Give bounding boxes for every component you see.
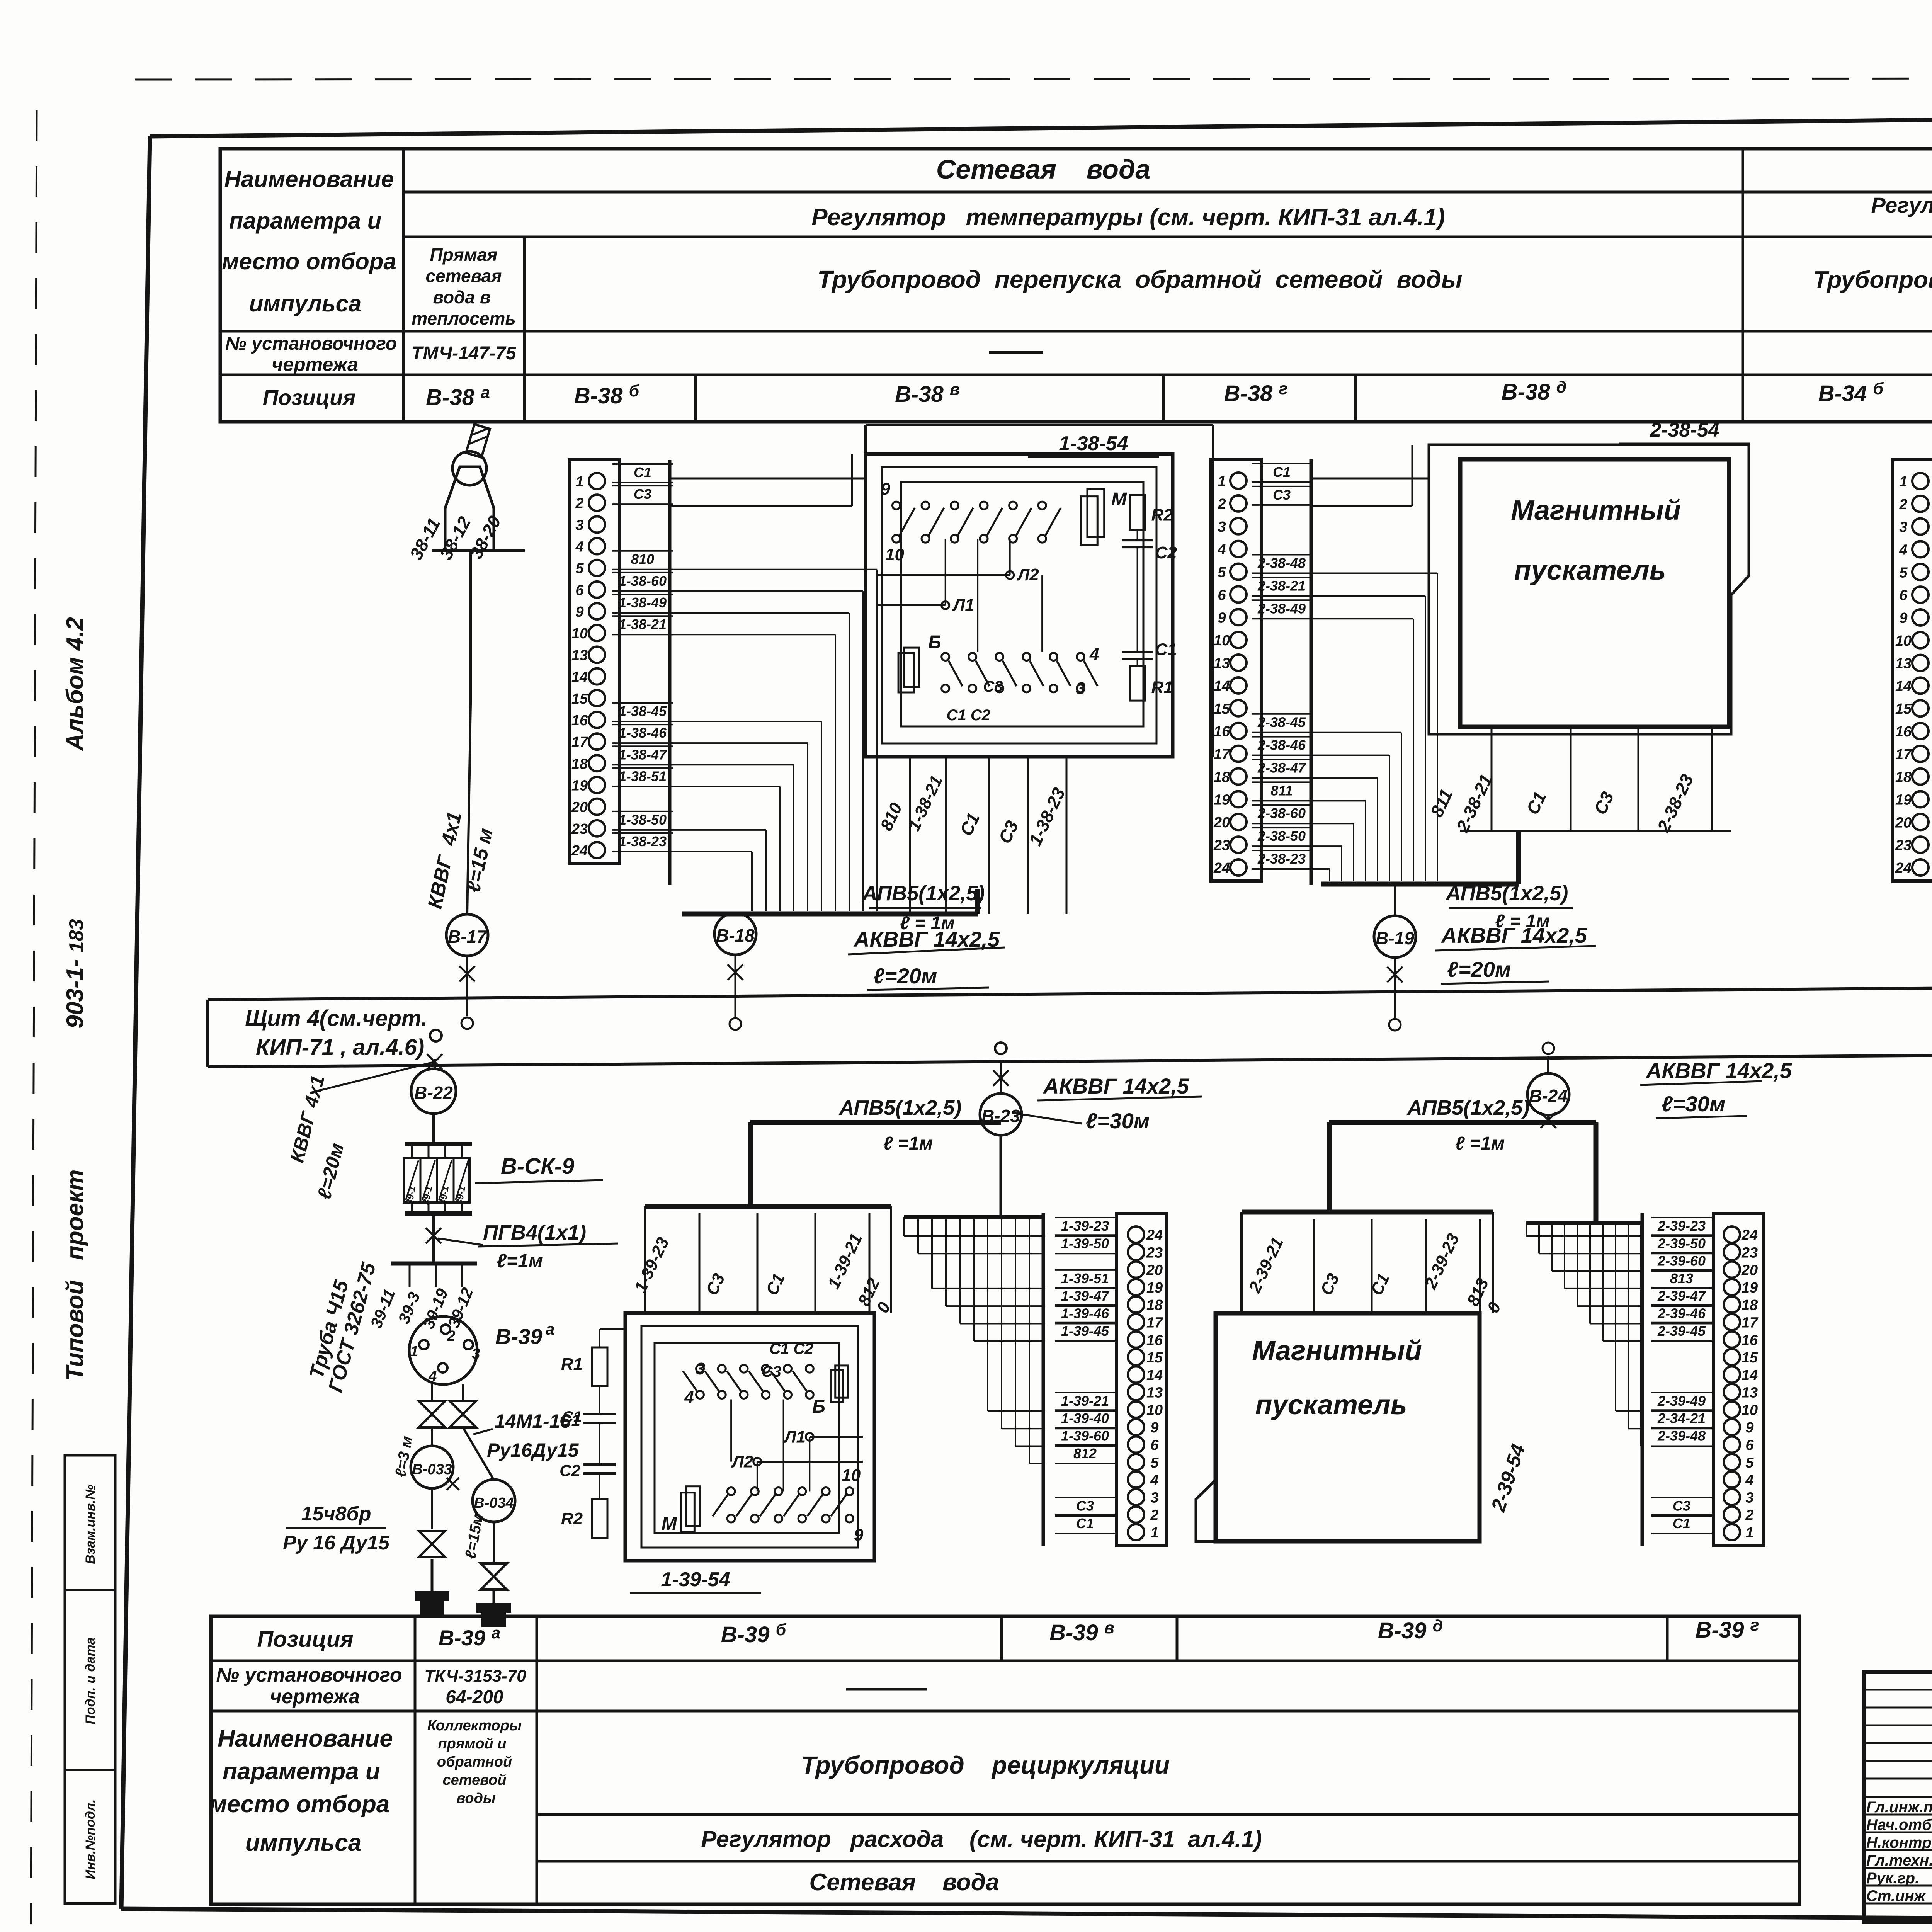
svg-text:Ру16Ду15: Ру16Ду15 — [487, 1439, 579, 1461]
svg-text:2-39-45: 2-39-45 — [1657, 1323, 1706, 1339]
svg-text:Коллекторы: Коллекторы — [427, 1718, 522, 1734]
sensor leads 39-x — [391, 1262, 477, 1266]
svg-text:В-39: В-39 — [495, 1324, 542, 1349]
svg-text:6: 6 — [1150, 1437, 1159, 1454]
svg-text:3: 3 — [696, 1359, 705, 1378]
sheet edge dashed left — [31, 110, 37, 1924]
svg-text:1-39-47: 1-39-47 — [1061, 1288, 1110, 1304]
svg-text:2-38-47: 2-38-47 — [1257, 760, 1306, 776]
svg-text:№ установочного: № установочного — [216, 1664, 402, 1686]
svg-text:Позиция: Позиция — [263, 385, 356, 410]
svg-text:16: 16 — [1742, 1332, 1758, 1349]
component column left of A3 — [592, 1347, 607, 1386]
svg-text:АКВВГ 14х2,5: АКВВГ 14х2,5 — [1043, 1074, 1189, 1098]
svg-text:Нач.отб.: Нач.отб. — [1866, 1816, 1932, 1833]
wire B-17 to bus — [466, 955, 468, 1016]
svg-text:1: 1 — [1899, 474, 1907, 490]
magnetic starter 2 notch — [1196, 1480, 1216, 1541]
svg-text:6: 6 — [575, 582, 584, 599]
wire B-19 to bus — [1394, 957, 1396, 1018]
svg-text:Ру 16 Ду15: Ру 16 Ду15 — [283, 1532, 390, 1554]
svg-text:4: 4 — [1899, 542, 1907, 558]
svg-text:Сетевая вода: Сетевая вода — [936, 154, 1151, 184]
svg-text:13: 13 — [571, 647, 588, 663]
svg-text:9: 9 — [575, 604, 583, 620]
terminal block X4 — [1117, 1213, 1167, 1546]
svg-text:1-39-60: 1-39-60 — [1061, 1428, 1109, 1444]
svg-text:2-38-48: 2-38-48 — [1257, 555, 1306, 571]
svg-text:14: 14 — [1895, 678, 1912, 694]
svg-text:В-38 а: В-38 а — [426, 383, 490, 410]
svg-text:Ст.инж: Ст.инж — [1866, 1888, 1927, 1905]
relay box A1 bottom leads — [988, 757, 990, 914]
svg-text:прямой и: прямой и — [438, 1736, 506, 1752]
svg-text:1-39-54: 1-39-54 — [661, 1568, 730, 1591]
svg-text:пускатель: пускатель — [1255, 1389, 1407, 1420]
svg-text:16: 16 — [1895, 724, 1912, 740]
bundle APV5 unit F — [750, 1120, 1001, 1125]
svg-text:2-38-21: 2-38-21 — [1257, 578, 1306, 594]
svg-text:1-38-49: 1-38-49 — [619, 595, 667, 611]
valves pair below B-39a — [431, 1384, 433, 1400]
svg-text:импульса: импульса — [249, 291, 362, 316]
node B-033 — [431, 1427, 433, 1446]
svg-text:Позиция: Позиция — [257, 1627, 353, 1652]
svg-text:1: 1 — [1745, 1525, 1753, 1541]
svg-text:С1: С1 — [1155, 640, 1177, 659]
node B-17 — [446, 914, 488, 956]
svg-text:ПГВ4(1х1): ПГВ4(1х1) — [483, 1221, 586, 1244]
svg-text:R1: R1 — [1151, 678, 1173, 697]
svg-text:813: 813 — [1670, 1270, 1693, 1286]
svg-text:2: 2 — [575, 495, 583, 512]
svg-text:810: 810 — [631, 551, 654, 567]
svg-text:R2: R2 — [1151, 505, 1173, 524]
unit G top lead cells — [1313, 1219, 1315, 1312]
svg-text:23: 23 — [571, 821, 588, 837]
ground symbol 1 — [431, 1559, 434, 1591]
svg-text:15: 15 — [571, 691, 588, 707]
svg-text:Гл.техн.: Гл.техн. — [1866, 1852, 1932, 1869]
svg-text:Рук.гр.: Рук.гр. — [1866, 1870, 1919, 1887]
terminal bus line X1 — [668, 460, 672, 885]
stamp frame — [1864, 1672, 1932, 1922]
relay box A3 — [625, 1313, 874, 1561]
terminal bus line X2 — [1310, 459, 1313, 885]
svg-text:1-39-50: 1-39-50 — [1061, 1235, 1109, 1251]
svg-text:вода в: вода в — [433, 287, 490, 307]
svg-text:чертежа: чертежа — [270, 1685, 360, 1708]
svg-text:1: 1 — [1150, 1525, 1158, 1541]
svg-text:10: 10 — [1742, 1402, 1758, 1418]
svg-text:64-200: 64-200 — [446, 1687, 503, 1708]
svg-text:5: 5 — [575, 561, 584, 577]
svg-text:С1: С1 — [560, 1411, 580, 1429]
svg-text:10: 10 — [842, 1466, 861, 1485]
panel bus Щит 4 box — [208, 984, 1932, 1000]
svg-text:23: 23 — [1146, 1245, 1163, 1261]
svg-text:6: 6 — [1745, 1437, 1754, 1454]
border frame — [150, 113, 1932, 136]
svg-text:13: 13 — [1146, 1385, 1163, 1401]
svg-text:Регулятор расхода (см. че: Регулятор расхода (см. черт. КИП-31 ал.4… — [701, 1826, 1262, 1852]
svg-text:С1 С2: С1 С2 — [947, 707, 990, 724]
bundle unit C — [1321, 882, 1519, 887]
svg-text:В-033: В-033 — [412, 1461, 452, 1478]
wire B-24 to bus — [1547, 1056, 1549, 1075]
svg-text:Типовой проект: Типовой проект — [62, 1169, 88, 1381]
svg-text:2-38-60: 2-38-60 — [1257, 805, 1306, 821]
terminal X2 left leads — [1311, 478, 1429, 480]
svg-text:9: 9 — [1150, 1420, 1158, 1436]
svg-text:В-39 а: В-39 а — [439, 1624, 500, 1650]
top table grid — [220, 149, 1932, 422]
svg-text:1: 1 — [575, 474, 583, 490]
svg-text:5: 5 — [1745, 1455, 1754, 1471]
wire B-18 to bus — [735, 954, 736, 1017]
svg-text:18: 18 — [571, 756, 588, 772]
sensor thermometer B-17 top — [445, 467, 494, 551]
svg-text:20: 20 — [571, 799, 588, 816]
svg-text:3: 3 — [1150, 1490, 1158, 1506]
wire B-19 drop — [1394, 884, 1396, 917]
svg-text:место отбора: место отбора — [222, 248, 396, 274]
svg-text:13: 13 — [1214, 655, 1230, 672]
svg-text:АПВ5(1х2,5): АПВ5(1х2,5) — [1445, 882, 1568, 905]
svg-text:18: 18 — [1895, 769, 1912, 786]
svg-text:23: 23 — [1895, 837, 1912, 854]
relay box A1 top link — [866, 424, 1213, 426]
svg-text:С1: С1 — [1273, 464, 1291, 480]
svg-text:16: 16 — [571, 713, 588, 729]
unit F top bus — [645, 1204, 891, 1209]
svg-text:24: 24 — [571, 843, 588, 859]
svg-text:24: 24 — [1213, 860, 1230, 876]
svg-text:13: 13 — [1742, 1385, 1758, 1401]
svg-text:17: 17 — [1214, 747, 1231, 763]
svg-text:3: 3 — [1745, 1490, 1753, 1506]
svg-text:14: 14 — [571, 669, 588, 685]
svg-text:R2: R2 — [561, 1509, 583, 1528]
svg-text:812: 812 — [1073, 1446, 1097, 1461]
svg-text:С3: С3 — [1673, 1498, 1690, 1514]
svg-text:17: 17 — [571, 734, 588, 750]
terminal bus line X5 — [1641, 1213, 1644, 1546]
svg-text:Трубопровод перепуска обратн: Трубопровод перепуска обратной сетевой в… — [817, 265, 1462, 293]
svg-text:15: 15 — [1742, 1350, 1758, 1366]
svg-text:20: 20 — [1213, 815, 1230, 831]
svg-text:4: 4 — [684, 1388, 694, 1407]
svg-text:В-034: В-034 — [474, 1495, 514, 1511]
svg-text:15: 15 — [1214, 701, 1230, 717]
svg-text:23: 23 — [1741, 1245, 1758, 1261]
wire B-23 to bus — [1000, 1060, 1002, 1095]
svg-text:С3: С3 — [983, 678, 1003, 695]
svg-text:6: 6 — [1218, 587, 1226, 603]
svg-text:1-39-51: 1-39-51 — [1061, 1270, 1109, 1286]
svg-text:ℓ=30м: ℓ=30м — [1086, 1109, 1150, 1133]
svg-text:КИП-71 , ал.4.6): КИП-71 , ал.4.6) — [256, 1035, 424, 1060]
svg-text:параметра и: параметра и — [229, 208, 381, 234]
svg-text:С3: С3 — [1273, 487, 1291, 503]
svg-text:4: 4 — [1150, 1472, 1158, 1488]
node B-034 — [463, 1427, 494, 1480]
svg-text:В-39 г: В-39 г — [1696, 1616, 1759, 1643]
svg-text:обратной: обратной — [437, 1754, 512, 1770]
svg-text:С3: С3 — [1076, 1498, 1094, 1514]
svg-text:19: 19 — [1742, 1280, 1758, 1296]
svg-text:чертежа: чертежа — [272, 354, 358, 375]
valves above ground — [431, 1488, 433, 1529]
svg-text:20: 20 — [1741, 1262, 1758, 1279]
svg-text:ℓ = 1м: ℓ = 1м — [900, 913, 955, 934]
svg-text:14: 14 — [1146, 1367, 1163, 1383]
svg-text:Гл.инж.п: Гл.инж.п — [1866, 1799, 1932, 1816]
svg-text:3: 3 — [472, 1346, 480, 1362]
svg-text:14: 14 — [1214, 678, 1230, 694]
svg-text:1-38-21: 1-38-21 — [619, 616, 667, 632]
svg-text:Н.контр: Н.контр — [1866, 1834, 1932, 1851]
svg-text:В-18: В-18 — [716, 925, 755, 946]
svg-text:сетевая: сетевая — [426, 266, 502, 286]
svg-text:5: 5 — [1150, 1455, 1159, 1471]
node B-24 — [1527, 1073, 1569, 1115]
svg-text:2: 2 — [1899, 497, 1907, 513]
svg-text:2-38-54: 2-38-54 — [1650, 419, 1719, 441]
svg-text:3: 3 — [575, 517, 583, 533]
svg-text:2-39-48: 2-39-48 — [1657, 1428, 1706, 1444]
svg-text:2-39-47: 2-39-47 — [1657, 1288, 1706, 1304]
svg-text:АКВВГ 14х2,5: АКВВГ 14х2,5 — [1645, 1058, 1792, 1083]
svg-text:1-38-50: 1-38-50 — [619, 812, 667, 828]
svg-text:№ установочного: № установочного — [225, 333, 397, 354]
svg-text:В-24: В-24 — [1529, 1086, 1568, 1106]
svg-text:Трубопровод рециркуляции: Трубопровод рециркуляции — [801, 1751, 1170, 1779]
svg-text:17: 17 — [1146, 1315, 1163, 1331]
svg-text:1-38-51: 1-38-51 — [619, 768, 667, 784]
svg-text:С1: С1 — [1673, 1515, 1690, 1531]
svg-text:Наименование: Наименование — [224, 166, 394, 192]
svg-text:9: 9 — [1899, 610, 1907, 626]
svg-text:20: 20 — [1895, 815, 1912, 831]
svg-text:С2: С2 — [1155, 543, 1177, 562]
svg-text:Взам.инв.№: Взам.инв.№ — [83, 1485, 98, 1564]
wire fan X4 — [1043, 1235, 1045, 1237]
svg-text:4: 4 — [428, 1368, 437, 1384]
terminal block X1 — [569, 460, 619, 864]
svg-text:16: 16 — [1146, 1332, 1163, 1349]
svg-text:ℓ=20м: ℓ=20м — [1447, 957, 1511, 981]
wire fan X1 to bundle — [670, 569, 877, 570]
wire fan X2 to bundle — [1311, 573, 1437, 574]
node B-23 — [980, 1094, 1022, 1135]
svg-text:Трубопровод деаэрированной в: Трубопровод деаэрированной воды. — [1813, 267, 1932, 293]
svg-text:2: 2 — [447, 1328, 455, 1344]
svg-text:10: 10 — [1895, 633, 1912, 649]
svg-text:Л1: Л1 — [783, 1428, 806, 1447]
node B-19 — [1374, 916, 1416, 957]
svg-text:Наименование: Наименование — [218, 1725, 393, 1752]
svg-text:2-39-60: 2-39-60 — [1657, 1253, 1706, 1269]
svg-text:2-39-46: 2-39-46 — [1657, 1305, 1706, 1321]
svg-text:9: 9 — [881, 480, 890, 498]
svg-text:5: 5 — [1899, 565, 1908, 581]
svg-text:9: 9 — [1218, 610, 1226, 626]
svg-text:пускатель: пускатель — [1514, 555, 1666, 586]
svg-text:1-39-45: 1-39-45 — [1061, 1323, 1109, 1339]
svg-text:С2: С2 — [560, 1461, 580, 1480]
svg-text:Л2: Л2 — [731, 1452, 753, 1471]
svg-text:811: 811 — [1270, 782, 1293, 798]
svg-text:17: 17 — [1895, 747, 1912, 763]
svg-text:2-39-50: 2-39-50 — [1657, 1235, 1706, 1251]
svg-text:10: 10 — [571, 626, 588, 642]
node B-22 — [411, 1069, 456, 1114]
svg-text:1-38-46: 1-38-46 — [619, 725, 667, 741]
svg-text:2-38-50: 2-38-50 — [1257, 828, 1306, 844]
svg-text:М: М — [662, 1514, 677, 1534]
terminal bus line X4 — [1042, 1213, 1045, 1546]
svg-text:Сетевая вода: Сетевая вода — [809, 1869, 999, 1896]
svg-text:АПВ5(1х2,5): АПВ5(1х2,5) — [862, 882, 985, 905]
svg-text:Л2: Л2 — [1017, 565, 1039, 584]
ground symbol 2 — [493, 1591, 495, 1603]
svg-text:Прямая: Прямая — [430, 245, 498, 265]
wire below CK9 — [432, 1213, 435, 1264]
svg-text:24: 24 — [1895, 860, 1912, 876]
svg-text:10: 10 — [1214, 633, 1230, 649]
svg-text:10: 10 — [885, 545, 904, 564]
svg-text:2-39-49: 2-39-49 — [1657, 1393, 1706, 1409]
svg-text:13: 13 — [1895, 656, 1912, 672]
svg-text:сетевой: сетевой — [442, 1772, 506, 1788]
svg-text:ℓ=30м: ℓ=30м — [1662, 1092, 1725, 1116]
relay box A1 left leads — [670, 478, 866, 480]
svg-text:9: 9 — [1745, 1420, 1753, 1436]
magnetic starter 1 lead cells — [1491, 727, 1493, 831]
svg-text:Альбом 4.2: Альбом 4.2 — [62, 617, 88, 752]
svg-text:3: 3 — [1076, 679, 1085, 698]
svg-text:R1: R1 — [561, 1355, 583, 1374]
svg-text:1-39-46: 1-39-46 — [1061, 1305, 1109, 1321]
svg-text:3: 3 — [1899, 519, 1907, 536]
svg-text:3: 3 — [1218, 519, 1226, 535]
bundle APV5 unit B — [682, 912, 978, 917]
svg-text:1-38-23: 1-38-23 — [619, 833, 667, 849]
svg-text:18: 18 — [1742, 1297, 1758, 1313]
sheet edge dashed top — [135, 78, 1932, 80]
svg-text:23: 23 — [1213, 837, 1230, 854]
svg-text:1-39-40: 1-39-40 — [1061, 1410, 1109, 1426]
svg-text:15ч8бр: 15ч8бр — [301, 1503, 371, 1525]
svg-text:14: 14 — [1742, 1367, 1758, 1383]
svg-text:4: 4 — [1089, 645, 1099, 664]
svg-text:Л1: Л1 — [952, 596, 975, 615]
svg-text:Магнитный: Магнитный — [1252, 1335, 1422, 1366]
hatch box B-CK-9 — [405, 1142, 472, 1146]
bundle APV5 unit G — [1329, 1120, 1596, 1125]
wire B-22 down — [432, 1114, 435, 1144]
svg-text:18: 18 — [1146, 1297, 1163, 1313]
svg-text:16: 16 — [1214, 724, 1230, 740]
svg-text:1-38-54: 1-38-54 — [1059, 432, 1128, 455]
svg-text:Магнитный: Магнитный — [1511, 495, 1681, 526]
sensor circle B-39a — [409, 1316, 477, 1384]
svg-text:1: 1 — [1218, 473, 1226, 490]
svg-text:АПВ5(1х2,5): АПВ5(1х2,5) — [838, 1096, 962, 1119]
relay box A1 left-bottom leads 810 1-38-21 — [909, 757, 911, 914]
svg-text:1-39-21: 1-39-21 — [1061, 1393, 1109, 1409]
bottom table grid — [211, 1616, 1799, 1904]
svg-text:теплосеть: теплосеть — [412, 308, 515, 328]
svg-text:4: 4 — [1217, 542, 1226, 558]
terminal block X2 — [1211, 459, 1261, 881]
unit G top bus — [1242, 1210, 1493, 1215]
svg-text:15: 15 — [1895, 701, 1912, 717]
svg-text:Подп. и дата: Подп. и дата — [83, 1637, 98, 1724]
margin stamp strip — [65, 1455, 115, 1903]
terminal block X3 — [1893, 460, 1932, 881]
svg-text:2: 2 — [1150, 1507, 1158, 1524]
svg-text:1-38-47: 1-38-47 — [619, 747, 667, 762]
svg-text:М: М — [1111, 489, 1127, 510]
svg-text:Щит 4(см.черт.: Щит 4(см.черт. — [245, 1006, 427, 1031]
svg-text:Инв.№подл.: Инв.№подл. — [83, 1799, 98, 1879]
svg-text:17: 17 — [1742, 1315, 1759, 1331]
svg-text:2-38-49: 2-38-49 — [1257, 600, 1306, 616]
svg-text:6: 6 — [1899, 587, 1908, 604]
svg-text:1-39-23: 1-39-23 — [1061, 1218, 1109, 1234]
wire fan X5 — [1526, 1223, 1527, 1236]
svg-text:19: 19 — [1895, 792, 1912, 808]
svg-text:ℓ =1м: ℓ =1м — [1455, 1133, 1505, 1154]
svg-text:В-СК-9: В-СК-9 — [501, 1154, 574, 1179]
svg-text:2-38-23: 2-38-23 — [1257, 851, 1306, 867]
svg-text:4: 4 — [575, 539, 583, 555]
svg-text:2-39-23: 2-39-23 — [1657, 1218, 1706, 1234]
terminal block X5 — [1714, 1213, 1764, 1546]
svg-text:2: 2 — [1217, 496, 1226, 512]
magnetic starter box 1 — [1460, 459, 1729, 727]
svg-text:18: 18 — [1214, 769, 1230, 785]
svg-text:С1: С1 — [634, 464, 651, 480]
svg-text:19: 19 — [1146, 1280, 1163, 1296]
unit F top lead cells — [699, 1213, 701, 1312]
sensor base line — [432, 549, 525, 552]
svg-text:19: 19 — [1214, 792, 1230, 808]
svg-text:2: 2 — [1745, 1507, 1753, 1524]
svg-text:Б: Б — [812, 1396, 825, 1417]
svg-text:ℓ=1м: ℓ=1м — [497, 1250, 543, 1272]
svg-text:С1 С2: С1 С2 — [769, 1340, 813, 1357]
svg-text:В-22: В-22 — [414, 1083, 453, 1103]
magnetic starter box 1 outer — [1429, 445, 1749, 734]
svg-text:С3: С3 — [762, 1363, 781, 1380]
svg-text:В-19: В-19 — [1376, 928, 1414, 948]
svg-text:ℓ = 1м: ℓ = 1м — [1495, 911, 1550, 932]
svg-text:ТМЧ-147-75: ТМЧ-147-75 — [411, 343, 516, 364]
relay box A1 — [866, 454, 1173, 757]
svg-text:1: 1 — [410, 1344, 418, 1360]
svg-text:АПВ5(1х2,5): АПВ5(1х2,5) — [1406, 1096, 1530, 1119]
svg-text:4: 4 — [1745, 1472, 1753, 1488]
svg-text:место отбора: место отбора — [209, 1791, 390, 1818]
svg-text:Регулятор температуры (см. ч: Регулятор температуры (см. черт. КИП-31 … — [811, 204, 1445, 231]
svg-text:импульса: импульса — [245, 1830, 361, 1856]
svg-text:В-38 г: В-38 г — [1224, 379, 1288, 406]
node B-18 — [714, 913, 756, 955]
svg-text:2-38-46: 2-38-46 — [1257, 737, 1306, 753]
